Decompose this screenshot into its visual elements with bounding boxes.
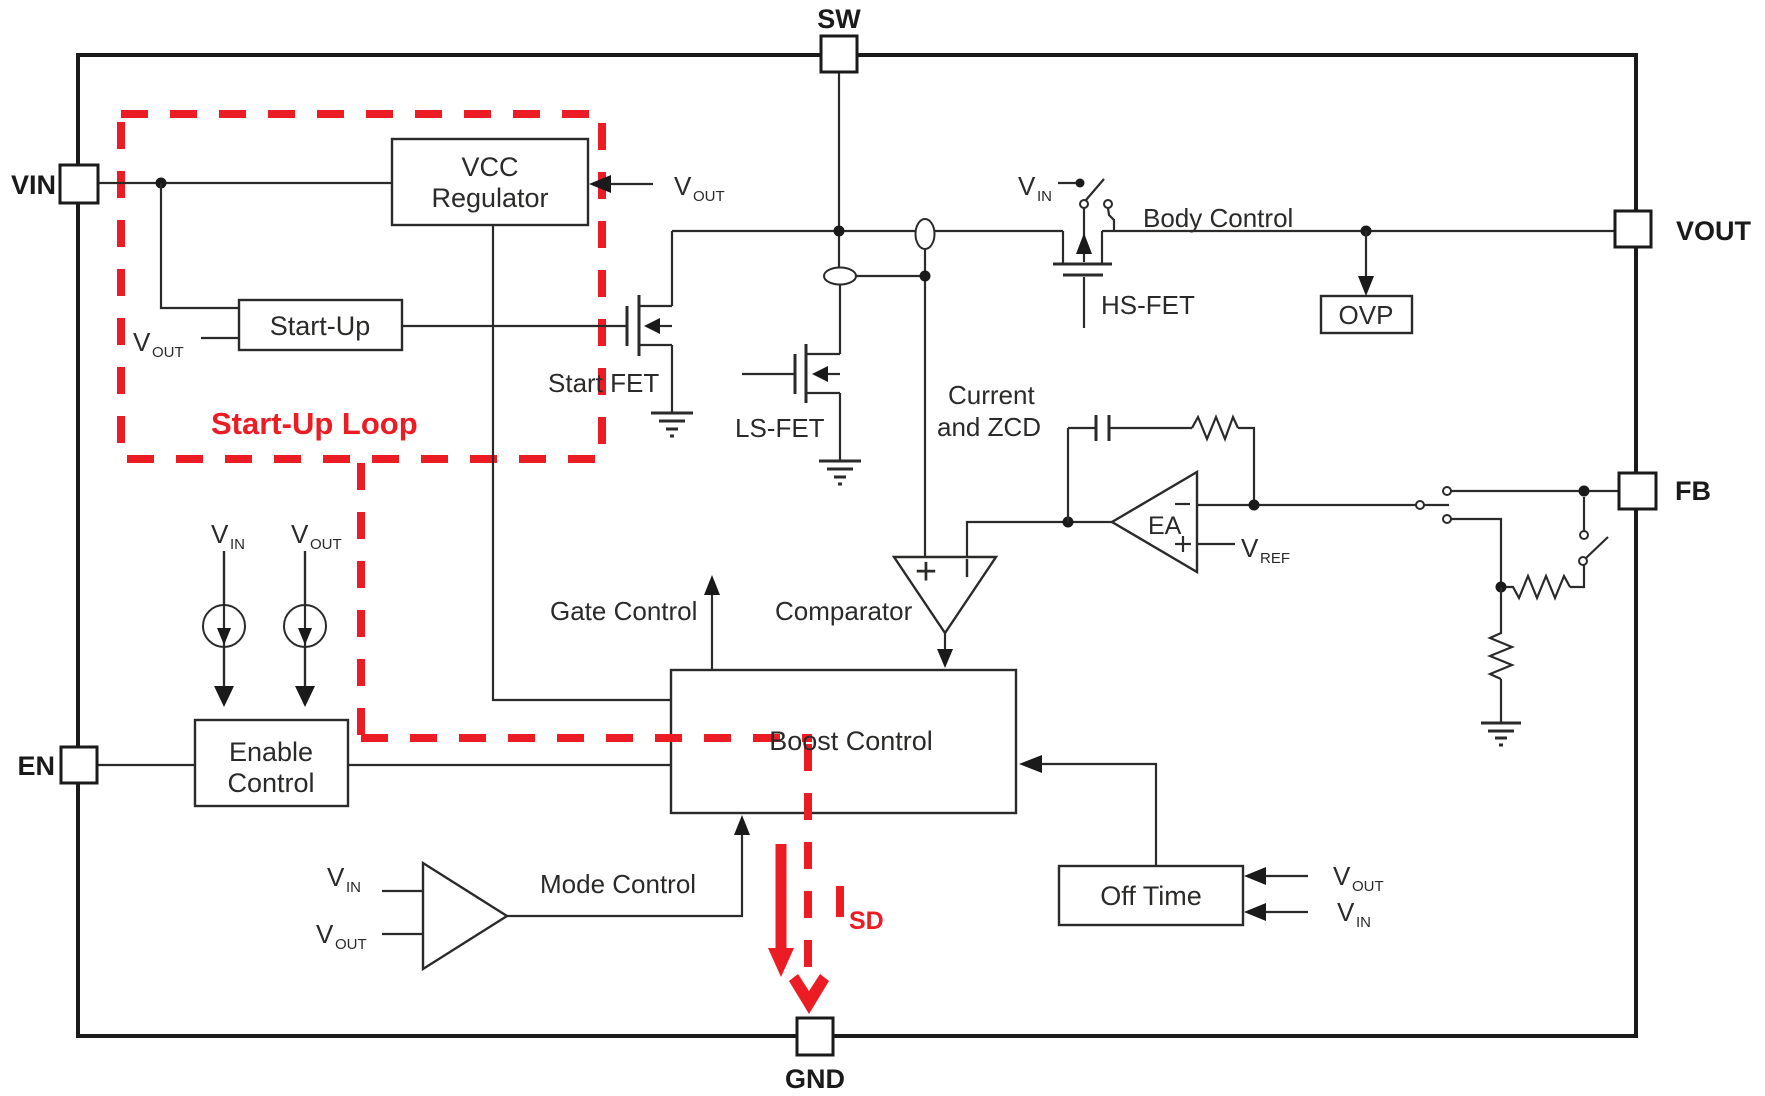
wire Off Time to Boost Control: [1040, 764, 1156, 866]
node at sense branch: [920, 271, 931, 282]
wire VIN to VCC Regulator: [98, 182, 392, 184]
comparator U2: [894, 551, 996, 633]
pin VOUT: [1615, 211, 1752, 247]
svg-text:Start-Up: Start-Up: [270, 311, 371, 341]
svg-text:Body Control: Body Control: [1143, 203, 1293, 233]
resistor R3 to ground: [1490, 587, 1512, 722]
svg-text:Gate Control: Gate Control: [550, 596, 697, 626]
Boost Control block: [671, 670, 1016, 813]
current sense ellipse on LS branch: [824, 268, 856, 285]
svg-text:OUT: OUT: [693, 188, 725, 205]
svg-text:Start-Up Loop: Start-Up Loop: [211, 406, 418, 441]
wire ellipse to comparator branch: [856, 276, 925, 557]
ISD label: [836, 886, 844, 917]
current source I1 VIN: [203, 519, 245, 707]
svg-text:IN: IN: [1356, 914, 1371, 931]
transistor HS-FET: [1053, 208, 1112, 328]
red dashed Start-Up Loop box: [121, 114, 602, 459]
wire VCC Regulator down to Boost Control: [493, 225, 671, 700]
pin VIN: [11, 165, 98, 203]
wire VIN node down to Start-Up: [161, 183, 239, 308]
resistor R1 feedback: [1192, 417, 1238, 439]
VIN body switch: [1018, 171, 1114, 231]
svg-text:FB: FB: [1675, 476, 1711, 506]
svg-text:OUT: OUT: [310, 536, 342, 553]
pin SW: [817, 4, 861, 72]
svg-text:V: V: [327, 862, 345, 892]
current source I2 VOUT: [284, 519, 342, 707]
svg-text:V: V: [1018, 171, 1036, 201]
svg-text:Comparator: Comparator: [775, 596, 913, 626]
svg-text:+: +: [915, 551, 937, 593]
svg-text:Boost Control: Boost Control: [769, 726, 933, 756]
wire feedback to EA minus node: [1238, 428, 1254, 505]
svg-text:VOUT: VOUT: [1676, 216, 1752, 246]
Off Time block: [1059, 866, 1243, 925]
VIN arrow into Off Time: [1244, 897, 1371, 931]
wire top throw to FB: [1451, 490, 1619, 492]
svg-text:V: V: [316, 919, 334, 949]
VOUT arrow into Off Time: [1244, 861, 1384, 895]
svg-text:REF: REF: [1260, 550, 1290, 567]
svg-text:Control: Control: [227, 768, 314, 798]
svg-text:EA: EA: [1148, 512, 1182, 540]
feedback branch up from EA output node: [1067, 428, 1069, 522]
Gate Control arrow: [704, 575, 720, 670]
node EA output: [1063, 517, 1074, 528]
pin GND: [785, 1018, 845, 1094]
svg-text:IN: IN: [346, 879, 361, 896]
VCC Regulator U1: [392, 139, 588, 225]
FB mode switch pole: [1416, 487, 1451, 523]
svg-text:OUT: OUT: [152, 344, 184, 361]
pin EN: [17, 747, 97, 783]
wire EA minus to FB switch: [1197, 504, 1416, 506]
current sense ellipse on SW wire: [916, 219, 935, 249]
node divider: [1496, 582, 1507, 593]
svg-text:HS-FET: HS-FET: [1101, 290, 1195, 320]
Mode Control buffer U3: [382, 863, 507, 969]
svg-text:Regulator: Regulator: [431, 183, 548, 213]
solid red shutdown arrow: [768, 844, 794, 977]
svg-text:V: V: [211, 519, 229, 549]
VOUT arrow into VCC Regulator: [589, 171, 725, 205]
svg-text:OUT: OUT: [335, 936, 367, 953]
svg-text:LS-FET: LS-FET: [735, 413, 825, 443]
wire Body Control to VOUT: [1102, 230, 1615, 232]
resistor R2: [1501, 576, 1570, 598]
pin FB: [1619, 473, 1711, 509]
svg-text:V: V: [1333, 861, 1351, 891]
svg-text:IN: IN: [1037, 188, 1052, 205]
switch at FB divider: [1570, 497, 1608, 587]
svg-text:V: V: [1337, 897, 1355, 927]
ground for LS-FET: [819, 461, 861, 484]
wire EN pin to Enable Control: [97, 764, 195, 766]
op-amp EA: [1112, 472, 1197, 572]
chip outline border: [78, 55, 1636, 1036]
svg-text:Enable: Enable: [229, 737, 313, 767]
svg-text:and ZCD: and ZCD: [937, 412, 1041, 442]
svg-text:EN: EN: [17, 751, 55, 781]
wire SW pin down: [838, 72, 840, 268]
arrow down to OVP: [1358, 231, 1374, 296]
svg-text:Mode Control: Mode Control: [540, 869, 696, 899]
wire Enable Control to Boost Control: [348, 764, 671, 766]
capacitor C1: [1068, 415, 1192, 441]
node OVP tap: [1361, 226, 1372, 237]
node SW junction: [834, 226, 845, 237]
wire EA output to comparator I input: [967, 522, 1112, 557]
wire Start-Up output to Start FET gate: [402, 325, 627, 327]
red dashed ISD path horizontal: [361, 734, 812, 742]
node feedback minus: [1249, 500, 1260, 511]
svg-text:SD: SD: [849, 907, 884, 935]
Start-Up block: [239, 300, 402, 350]
transistor LS-FET: [742, 344, 840, 460]
svg-text:GND: GND: [785, 1064, 845, 1094]
node at VIN wire: [156, 178, 167, 189]
svg-text:Start FET: Start FET: [548, 368, 659, 398]
VREF input: [1197, 533, 1290, 567]
svg-text:V: V: [1241, 533, 1259, 563]
wire SW net horizontal: [672, 230, 916, 232]
red arrowhead ISD dashed: [789, 974, 829, 1014]
red dashed ISD path vertical from loop box: [357, 463, 365, 738]
ground for Start FET: [651, 413, 693, 436]
svg-text:VIN: VIN: [11, 170, 56, 200]
wire below LS ellipse to LS-FET: [839, 285, 841, 354]
svg-text:V: V: [291, 519, 309, 549]
svg-text:OUT: OUT: [1352, 878, 1384, 895]
arrow comparator to Boost Control: [937, 633, 953, 668]
Enable Control block: [195, 720, 348, 806]
VOUT input to Start-Up: [133, 327, 239, 361]
svg-text:Current: Current: [948, 380, 1035, 410]
svg-text:I: I: [963, 553, 970, 583]
transistor Start FET: [627, 231, 672, 412]
node FB junction: [1579, 486, 1590, 497]
red dashed ISD path vertical to GND: [804, 744, 812, 978]
wire bottom throw to divider: [1451, 519, 1501, 587]
svg-text:OVP: OVP: [1339, 300, 1394, 330]
ground for FB divider: [1481, 723, 1521, 745]
wire mode control to Boost Control: [507, 832, 742, 916]
svg-text:SW: SW: [817, 4, 861, 34]
svg-text:VCC: VCC: [461, 152, 518, 182]
svg-text:IN: IN: [230, 536, 245, 553]
svg-text:Off Time: Off Time: [1100, 881, 1202, 911]
svg-text:V: V: [674, 171, 692, 201]
OVP block: [1321, 296, 1412, 333]
svg-text:V: V: [133, 327, 151, 357]
